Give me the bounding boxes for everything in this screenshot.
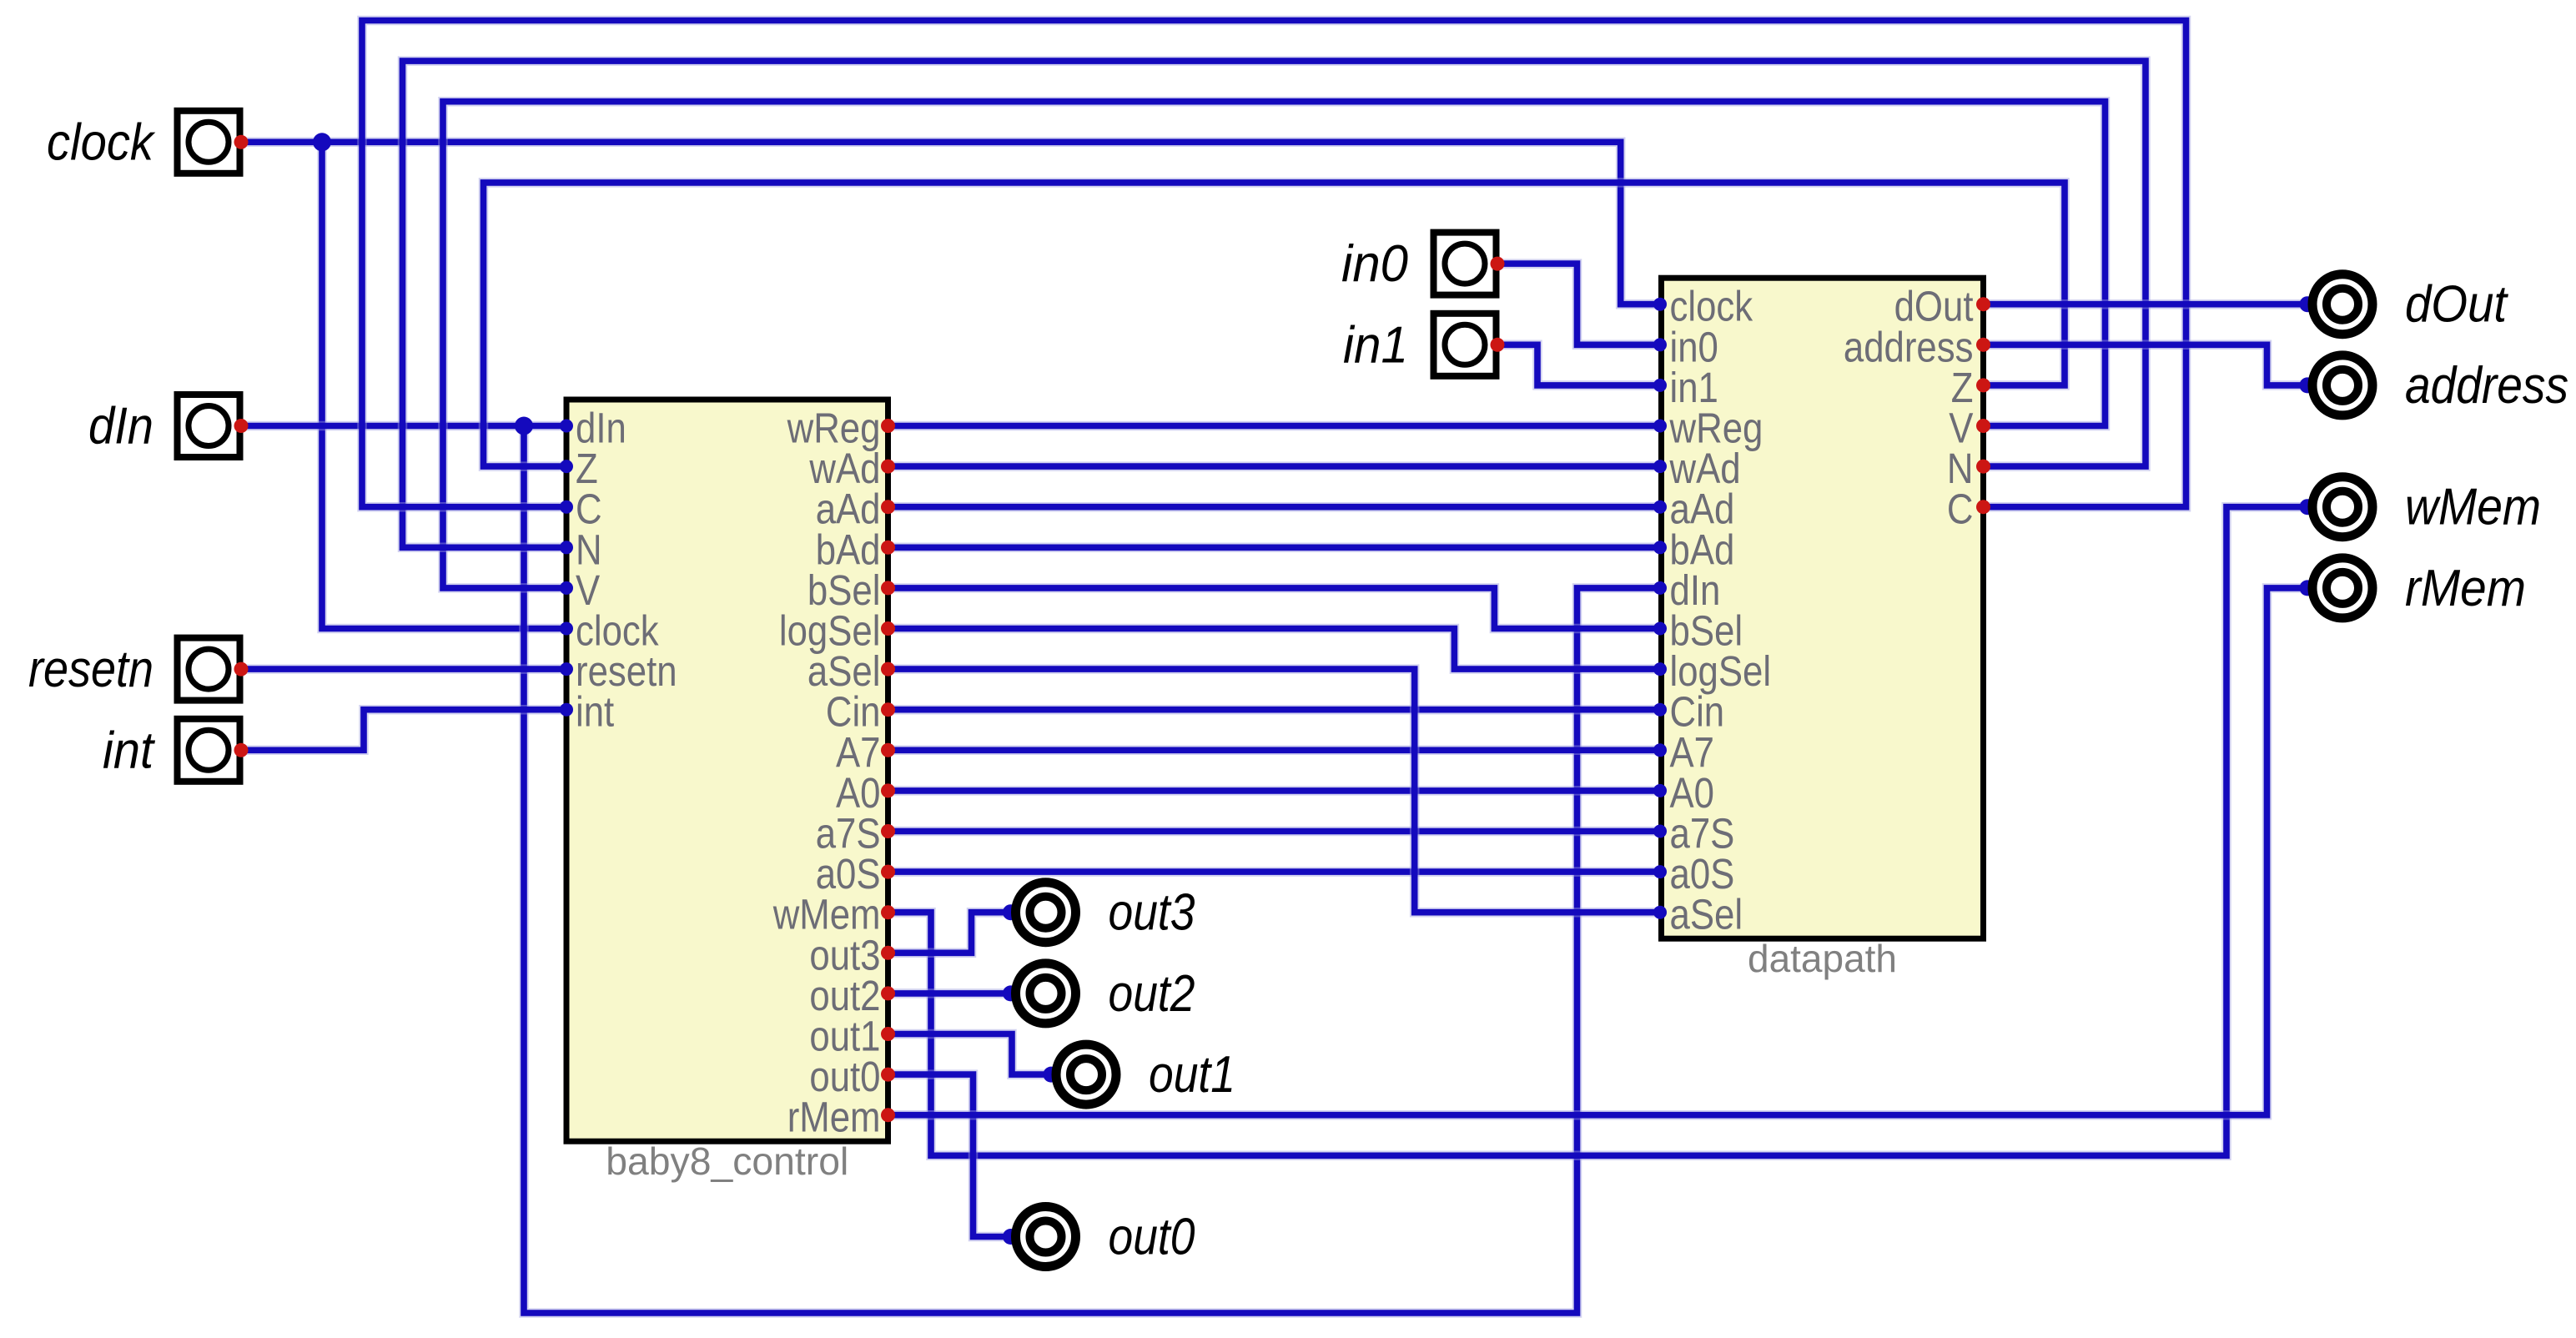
output connector dOut xyxy=(2300,274,2373,334)
wire net A7 baby8 to datapath xyxy=(888,746,1661,756)
input connector in0 xyxy=(1434,233,1505,295)
wire dOut output to dOut connector xyxy=(1984,299,2308,309)
wire net Cin baby8 to datapath xyxy=(888,705,1661,715)
wire net N from datapath N output around top to baby8 N input xyxy=(403,61,2146,547)
pin baby8_control a7S (output dot) xyxy=(881,824,895,838)
wire net out2 to out2 connector xyxy=(888,988,1011,998)
pin datapath A7 (input dot) xyxy=(1653,743,1667,757)
output connector address xyxy=(2300,355,2373,415)
input connector int xyxy=(178,719,249,782)
output connector wMem xyxy=(2300,477,2373,537)
wire net V from datapath V output around top to baby8 V input xyxy=(443,102,2106,588)
pin baby8_control logSel (output dot) xyxy=(881,621,895,636)
input connector clock xyxy=(178,111,249,174)
pin datapath a0S (input dot) xyxy=(1653,865,1667,878)
pin baby8_control N (input dot) xyxy=(560,541,573,554)
svg-text:int: int xyxy=(103,722,156,779)
pin baby8_control int (input dot) xyxy=(560,703,573,717)
pin baby8_control out0 (output dot) xyxy=(881,1068,895,1082)
wire net wReg baby8 to datapath xyxy=(888,421,1661,431)
output connector out0 xyxy=(1003,1207,1076,1267)
wire address output to address connector xyxy=(1984,345,2308,385)
svg-text:wMem: wMem xyxy=(2405,479,2541,536)
junction clock net xyxy=(313,133,331,151)
pin baby8_control A0 (output dot) xyxy=(881,783,895,797)
pin baby8_control A7 (output dot) xyxy=(881,743,895,757)
svg-text:resetn: resetn xyxy=(28,641,153,698)
wire net a7S baby8 to datapath xyxy=(888,827,1661,837)
wire net out3 to out3 connector xyxy=(888,913,1011,953)
pin datapath Cin (input dot) xyxy=(1653,703,1667,717)
pin datapath aSel (input dot) xyxy=(1653,906,1667,919)
input connector resetn xyxy=(178,638,249,701)
wire resetn connector to baby8 resetn pin xyxy=(241,664,566,674)
wire clock branch down to baby8 clock pin xyxy=(322,142,566,628)
svg-text:datapath: datapath xyxy=(1748,937,1897,980)
svg-text:rMem: rMem xyxy=(2405,560,2526,617)
output connector rMem xyxy=(2300,558,2373,618)
pin baby8_control aSel (output dot) xyxy=(881,662,895,677)
wire net Z from datapath Z output around top to baby8 Z input xyxy=(484,183,2065,466)
pin datapath in0 (input dot) xyxy=(1653,338,1667,351)
output connector out2 xyxy=(1003,963,1076,1024)
pin datapath aAd (input dot) xyxy=(1653,500,1667,514)
pin baby8_control bAd (output dot) xyxy=(881,541,895,555)
svg-text:in1: in1 xyxy=(1343,316,1408,374)
svg-text:clock: clock xyxy=(47,113,156,171)
pin datapath N (output dot) xyxy=(1976,460,1990,474)
pin baby8_control C (input dot) xyxy=(560,500,573,514)
wire clock bus from clock connector to datapath corner xyxy=(241,142,1660,304)
wire net wAd baby8 to datapath xyxy=(888,461,1661,471)
pin datapath V (output dot) xyxy=(1976,419,1990,433)
output connector out3 xyxy=(1003,883,1076,943)
pin datapath a7S (input dot) xyxy=(1653,825,1667,838)
junction dIn net xyxy=(515,417,533,435)
pin datapath dOut (output dot) xyxy=(1976,297,1990,311)
pin baby8_control dIn (input dot) xyxy=(560,420,573,433)
svg-text:out2: out2 xyxy=(1109,965,1195,1023)
pin baby8_control wReg (output dot) xyxy=(881,419,895,433)
svg-text:dOut: dOut xyxy=(2405,276,2509,334)
wire net rMem baby8 to rMem connector xyxy=(888,588,2308,1115)
pin baby8_control aAd (output dot) xyxy=(881,500,895,514)
pin datapath Z (output dot) xyxy=(1976,378,1990,392)
pin datapath bSel (input dot) xyxy=(1653,622,1667,636)
svg-text:in0: in0 xyxy=(1341,235,1408,293)
pin baby8_control out3 (output dot) xyxy=(881,946,895,960)
pin datapath in1 (input dot) xyxy=(1653,379,1667,392)
output connector out1 xyxy=(1044,1044,1117,1104)
wire net bSel baby8 to datapath xyxy=(888,588,1661,629)
wire int connector to baby8 int pin xyxy=(241,710,566,751)
pin datapath dIn (input dot) xyxy=(1653,581,1667,595)
wire net out0 to out0 connector xyxy=(888,1074,1011,1236)
pin datapath bAd (input dot) xyxy=(1653,541,1667,554)
wire net aAd baby8 to datapath xyxy=(888,502,1661,512)
wire net bAd baby8 to datapath xyxy=(888,543,1661,553)
svg-text:aSel: aSel xyxy=(1670,891,1743,938)
svg-text:address: address xyxy=(2405,357,2568,415)
pin datapath A0 (input dot) xyxy=(1653,784,1667,797)
svg-text:out0: out0 xyxy=(1109,1209,1195,1266)
block datapath body xyxy=(1662,278,1984,938)
svg-text:int: int xyxy=(576,688,614,736)
wire net a0S baby8 to datapath xyxy=(888,867,1661,877)
pin baby8_control a0S (output dot) xyxy=(881,865,895,879)
pin baby8_control V (input dot) xyxy=(560,581,573,595)
pin datapath C (output dot) xyxy=(1976,500,1990,514)
pin baby8_control rMem (output dot) xyxy=(881,1108,895,1122)
pin datapath address (output dot) xyxy=(1976,338,1990,352)
pin datapath wReg (input dot) xyxy=(1653,420,1667,433)
svg-text:dIn: dIn xyxy=(88,398,153,455)
wire net A0 baby8 to datapath xyxy=(888,786,1661,796)
pin baby8_control out1 (output dot) xyxy=(881,1027,895,1041)
wire net C from datapath C output around top to baby8 C input xyxy=(362,21,2186,507)
wire in1 connector to datapath in1 pin xyxy=(1498,345,1660,385)
pin baby8_control bSel (output dot) xyxy=(881,581,895,595)
input connector dIn xyxy=(178,395,249,457)
pin baby8_control Z (input dot) xyxy=(560,460,573,473)
pin baby8_control out2 (output dot) xyxy=(881,986,895,1000)
wire net wMem baby8 around bottom to wMem connector xyxy=(888,507,2308,1156)
svg-text:C: C xyxy=(1947,485,1974,533)
wire net aSel baby8 to datapath xyxy=(888,669,1661,913)
pin baby8_control wMem (output dot) xyxy=(881,905,895,919)
svg-text:rMem: rMem xyxy=(787,1094,881,1141)
pin baby8_control clock (input dot) xyxy=(560,622,573,636)
input connector in1 xyxy=(1434,314,1505,376)
svg-text:out3: out3 xyxy=(1109,884,1195,942)
wire dIn connector to baby8 dIn pin xyxy=(241,421,566,431)
wire net out1 to out1 connector xyxy=(888,1034,1052,1075)
pin baby8_control resetn (input dot) xyxy=(560,662,573,676)
wire net logSel baby8 to datapath xyxy=(888,629,1661,670)
pin baby8_control Cin (output dot) xyxy=(881,702,895,717)
block baby8_control body xyxy=(566,400,888,1141)
pin datapath wAd (input dot) xyxy=(1653,460,1667,473)
wire dIn branch down and along bottom to datapath dIn pin xyxy=(524,426,1660,1314)
pin datapath logSel (input dot) xyxy=(1653,662,1667,676)
svg-text:baby8_control: baby8_control xyxy=(606,1139,848,1183)
svg-text:out1: out1 xyxy=(1149,1046,1235,1104)
pin datapath clock (input dot) xyxy=(1653,298,1667,311)
pin baby8_control wAd (output dot) xyxy=(881,460,895,474)
wire in0 connector to datapath in0 pin xyxy=(1498,264,1660,345)
